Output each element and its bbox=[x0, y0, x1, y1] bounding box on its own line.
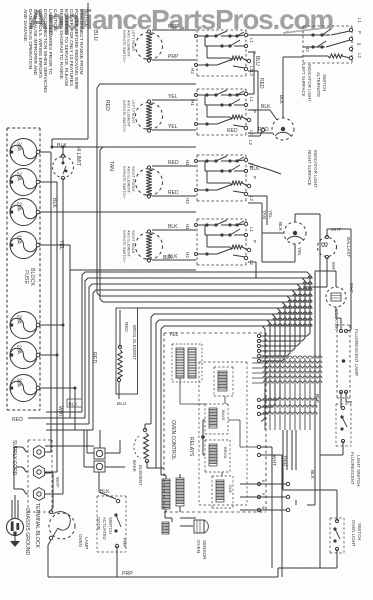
relay K2 bake bbox=[205, 404, 228, 434]
wire tan vertical bbox=[100, 147, 103, 150]
wire left front H1 bbox=[152, 99, 196, 101]
relay K3 broil bbox=[205, 440, 230, 472]
oven control dashed box bbox=[164, 333, 266, 512]
wire box3 BLK right bbox=[248, 163, 281, 174]
wire fuse20A y325 join bbox=[40, 324, 63, 326]
wire bus y270 bbox=[70, 245, 196, 270]
wire fuse30A y388 join bbox=[40, 388, 75, 430]
infinite switch box 2 bbox=[195, 89, 251, 135]
wire 20A to bus x57 bbox=[40, 182, 57, 472]
wire relay k3 left bbox=[203, 420, 205, 455]
wire oven light switch bottom bbox=[336, 549, 338, 568]
label OVEN LIGHT SWITCH bbox=[351, 520, 362, 547]
wire right rear H1 bbox=[152, 229, 196, 231]
relay K1 bbox=[214, 367, 233, 396]
relays inner dashed box bbox=[199, 362, 247, 505]
oven lamp bbox=[49, 510, 75, 539]
terminal block dashed box bbox=[28, 440, 52, 512]
wire sq to bake bbox=[105, 440, 125, 467]
label FUSE BLOCK bbox=[23, 268, 35, 286]
wire box2 RED to left bulb bbox=[248, 132, 272, 134]
bake element bbox=[132, 428, 149, 486]
oven control terminal M1 bbox=[257, 398, 260, 401]
fuse 30A #7 bbox=[10, 375, 40, 402]
wire left front H2 bbox=[152, 129, 196, 131]
wire right front H1 bbox=[152, 165, 196, 167]
wire relay B2 bbox=[240, 430, 292, 497]
wire box2 BLK to left bulb bbox=[248, 110, 277, 120]
wire bundle line 3 bbox=[46, 282, 312, 424]
wire bake bottom bbox=[147, 461, 164, 468]
wire right bus x315 bbox=[307, 271, 315, 505]
oven control terminal T6 bbox=[257, 359, 260, 362]
connector sq2 bbox=[94, 461, 105, 472]
wire bus y83 bbox=[97, 84, 196, 88]
wire left rear H1 bbox=[152, 29, 196, 31]
label OVEN LAMP bbox=[78, 534, 89, 549]
relay terminal R bbox=[257, 453, 260, 456]
wire hex right stubs bbox=[45, 452, 46, 494]
fuse 20A #2 bbox=[10, 169, 40, 196]
label ALTERNATE SWITCH bbox=[316, 72, 327, 97]
relay terminal B3 bbox=[257, 508, 260, 511]
fuse 20A #6 bbox=[10, 342, 40, 369]
wire crossing bus 4 bbox=[252, 371, 322, 373]
chassis ground symbol bbox=[14, 536, 16, 542]
terminal hex 2 bbox=[33, 466, 44, 479]
wire 20A to bus x63 bbox=[40, 212, 63, 494]
starter bbox=[326, 287, 346, 307]
wire lower crossing 2 bbox=[260, 405, 317, 407]
wire crossing bus 2 bbox=[252, 361, 322, 363]
wire left rear H2 bbox=[152, 59, 196, 61]
wire oven control internal 4 bbox=[221, 472, 223, 476]
wire RED box1-L2 down bbox=[248, 71, 258, 133]
wire sensor bbox=[165, 511, 196, 526]
wire crossing bus 6 bbox=[252, 381, 322, 383]
wire starter bottom bbox=[336, 307, 341, 330]
terminal hex 1 bbox=[33, 446, 44, 459]
wire crossing verticals bbox=[265, 358, 310, 430]
label DOOR ACTUATED SWITCH bbox=[96, 517, 113, 540]
relay terminal B1 bbox=[257, 482, 260, 485]
left surface indicator bulb bbox=[272, 108, 294, 140]
wire box4 to right bulb bbox=[248, 233, 284, 278]
relay terminal B2 bbox=[257, 495, 260, 498]
element coil right front bbox=[122, 166, 163, 198]
oven control terminal T2 bbox=[257, 339, 260, 342]
connector sq1 bbox=[94, 448, 105, 459]
infinite switch box 3 bbox=[195, 155, 251, 201]
wire bundle line 9 bbox=[148, 318, 312, 468]
wire yel tan verticals bbox=[248, 196, 267, 233]
labels L1 P L2 box4 bbox=[249, 227, 257, 265]
wire bus y147 bbox=[52, 146, 196, 148]
wire x283 to oven light bbox=[282, 430, 284, 490]
wire connector bars bbox=[166, 474, 180, 512]
wire lamp bottom wires bbox=[341, 392, 352, 408]
oven control terminal T5 bbox=[257, 354, 260, 357]
notice box border bbox=[52, 3, 88, 139]
wire crossing bus 1 bbox=[252, 356, 322, 358]
labels L1 P L2 box2 bbox=[249, 97, 257, 135]
wire crossing bus 5 bbox=[252, 376, 322, 378]
wire bundle line 10 bbox=[161, 324, 312, 475]
wire bulb top to alt switch bbox=[283, 57, 303, 108]
wire right bulb bottom bbox=[262, 233, 295, 262]
infinite switch box 1 bbox=[195, 30, 251, 76]
wire box1 L1 to alt switch bbox=[248, 34, 303, 36]
wire BLU box1-P down bbox=[248, 52, 254, 94]
wire door switch bottom bbox=[116, 546, 118, 577]
fluorescent light switch bbox=[336, 404, 351, 446]
label FLUORESCENT LIGHT SWITCH bbox=[350, 452, 361, 486]
wire bundle line 4 bbox=[46, 288, 312, 430]
wire lower crossing 3 bbox=[260, 412, 317, 414]
oven light switch bbox=[330, 518, 344, 553]
oven control terminal T3 bbox=[257, 344, 260, 347]
wire plug to terminal bbox=[12, 495, 18, 519]
wire oven control internal 1 bbox=[180, 378, 205, 404]
wire bundle line 7 bbox=[138, 306, 313, 400]
power plug bbox=[7, 519, 24, 536]
element coil right rear bbox=[122, 230, 163, 262]
labels L1 P L2 box1 bbox=[249, 38, 257, 76]
wire BLK right bus x320 bbox=[295, 214, 337, 568]
wire bundle line 2 bbox=[46, 276, 312, 418]
wire relay B3 bbox=[240, 430, 296, 510]
notice text block bbox=[22, 9, 89, 93]
wire right rear H2 bbox=[152, 259, 196, 261]
fluorescent lamp bbox=[337, 325, 350, 398]
wire sq down blk bbox=[99, 472, 116, 499]
label LEFT SURFACE INDICATOR LIGHT bbox=[301, 64, 312, 102]
alternate switch bbox=[303, 26, 353, 63]
wire RED relay bbox=[261, 455, 282, 568]
connector bar J1 bbox=[162, 479, 170, 509]
infinite switch box 4 bbox=[195, 219, 251, 265]
wire fluor switch bottom bbox=[320, 441, 343, 455]
wire crossing bus 3 bbox=[252, 366, 322, 368]
label OVEN SENSOR bbox=[196, 540, 207, 560]
label RIGHT SURFACE INDICATOR LIGHT bbox=[307, 150, 318, 188]
wire bottom right step bbox=[282, 500, 296, 577]
wire starter top bbox=[315, 271, 336, 287]
wire ballast top bbox=[327, 229, 351, 331]
wire PRP bottom bbox=[48, 568, 320, 577]
wire broil bottom bbox=[118, 382, 120, 399]
oven sensor connector bbox=[162, 522, 169, 534]
wire sq left bbox=[45, 430, 100, 467]
wire bundle line 6 tan bbox=[100, 150, 312, 361]
wire oven lamp top bbox=[45, 473, 53, 510]
oven control connector P1 bbox=[172, 344, 202, 382]
fuse 15A #4 bbox=[10, 232, 40, 259]
oven sensor bbox=[194, 520, 208, 533]
relay terminal W bbox=[257, 445, 260, 448]
wire bundle line 5 red bbox=[97, 88, 312, 356]
wire 30A to bus x51 bbox=[40, 152, 51, 452]
terminal hex 3 bbox=[33, 488, 44, 501]
supply cord wires bbox=[14, 447, 28, 494]
element coil left front bbox=[122, 100, 163, 132]
wire oven control internal 3 bbox=[228, 420, 257, 447]
wire hilimit top bbox=[52, 139, 63, 212]
wire bake top bbox=[144, 424, 146, 430]
wire lower crossing 1 bbox=[260, 398, 317, 400]
wire fuse20A y355 join bbox=[40, 354, 57, 356]
wire oven control internal 2 bbox=[224, 396, 226, 404]
labels alt switch terminals bbox=[357, 18, 362, 58]
wire bundle line 1 bbox=[46, 272, 310, 412]
wire bus y212 bbox=[63, 211, 196, 213]
door actuated switch bbox=[97, 496, 126, 552]
oven control terminal M2 bbox=[257, 405, 260, 408]
element coil left rear bbox=[122, 30, 163, 62]
wire box3 RED top bbox=[248, 131, 262, 136]
fuse block dashed border bbox=[7, 128, 40, 410]
relay K4 dlb bbox=[212, 476, 233, 508]
labels L1 P L2 box3 bbox=[249, 163, 257, 201]
wire WHT relay bbox=[261, 447, 272, 568]
wire right front H2 bbox=[152, 195, 196, 197]
hi limit circle bbox=[53, 154, 74, 179]
wire oven light switch top bbox=[283, 490, 337, 521]
connector bar J2 bbox=[176, 478, 184, 506]
oven control terminal T1 bbox=[257, 334, 260, 337]
wire bundle line 8 bbox=[145, 312, 312, 430]
oven control terminal M3 bbox=[257, 412, 260, 415]
wire relay B1 bbox=[240, 430, 287, 484]
right surface indicator bulb bbox=[284, 222, 306, 244]
fuse 30A #1 bbox=[10, 139, 40, 166]
wire oven lamp bottom bbox=[48, 540, 51, 577]
fuse 20A #5 bbox=[10, 312, 40, 339]
ballast bbox=[318, 235, 337, 258]
label BLK boxed bbox=[67, 399, 82, 408]
wire ballast bottom bbox=[303, 257, 327, 287]
wire 15A to bus x70 bbox=[28, 245, 70, 418]
broil element bbox=[116, 308, 138, 394]
junction dot relay bbox=[201, 435, 205, 439]
fuse 20A #3 bbox=[10, 199, 40, 226]
oven control terminal T4 bbox=[257, 349, 260, 352]
watermark underline swoosh bbox=[283, 27, 333, 33]
